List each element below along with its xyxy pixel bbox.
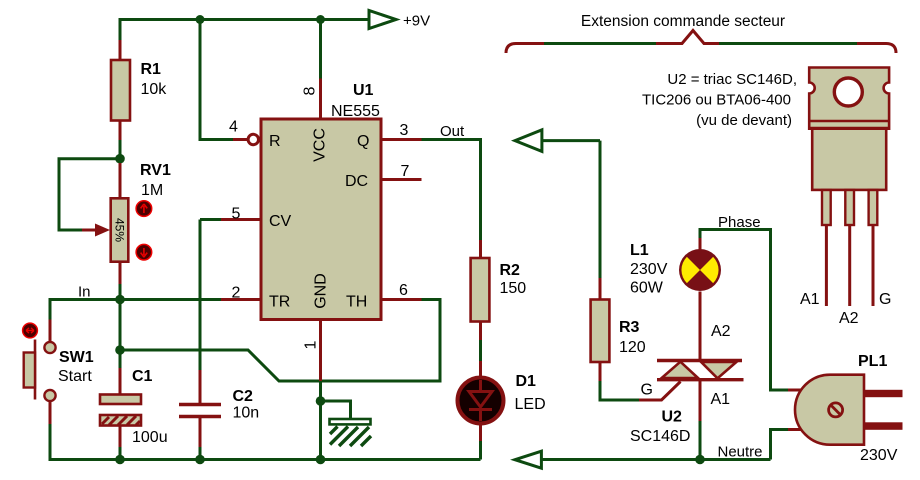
svg-text:A2: A2 (839, 310, 859, 327)
pin 2 stub (221, 285, 261, 302)
svg-text:RV1: RV1 (140, 162, 171, 179)
svg-text:45%: 45% (113, 218, 127, 242)
svg-text:230V: 230V (630, 261, 668, 278)
ground (321, 401, 372, 446)
svg-text:5: 5 (232, 206, 241, 223)
svg-text:A2: A2 (711, 323, 731, 340)
svg-text:L1: L1 (630, 242, 649, 259)
op-amp U1 NE555 (261, 82, 381, 320)
node junction rail-VCC (316, 15, 325, 24)
potentiometer RV1 (82, 162, 171, 284)
svg-text:U1: U1 (353, 82, 374, 99)
wire top +9V rail (120, 20, 369, 61)
wire pin3 Out (422, 140, 481, 241)
wire R2 to D1 (479, 340, 482, 361)
diode D1 LED (458, 361, 546, 441)
node junction rail-R4wire (196, 15, 205, 24)
svg-text:Extension commande secteur: Extension commande secteur (581, 13, 785, 30)
arrow extension neutre (515, 451, 771, 468)
wire R1 to node (119, 140, 122, 159)
TO-220 package drawing (800, 68, 891, 328)
wire RV1 wiper loop (59, 159, 118, 230)
svg-text:U2 = triac SC146D,: U2 = triac SC146D, (667, 71, 797, 88)
wire neutre to plug (771, 430, 789, 460)
node rail gnd (316, 455, 326, 465)
wire C1 node to TH diagonal (120, 300, 440, 382)
plug pin stubs (788, 390, 802, 430)
power +9V arrow (369, 11, 396, 29)
note text U2 triac (642, 71, 797, 129)
resistor R1 (111, 40, 167, 140)
svg-text:A1: A1 (711, 391, 731, 408)
SW1 actuate button (23, 323, 38, 338)
node In (115, 295, 125, 305)
svg-text:120: 120 (619, 339, 646, 356)
pin 3 stub (381, 122, 422, 140)
svg-text:Q: Q (357, 133, 369, 150)
svg-text:7: 7 (401, 163, 410, 180)
svg-text:Phase: Phase (718, 214, 761, 231)
wire In to SW1 (50, 300, 120, 320)
svg-text:2: 2 (232, 285, 241, 302)
pin 4 stub and bubble (229, 119, 259, 145)
pin 5 stub (200, 206, 261, 223)
wire In to pin2 (120, 298, 221, 301)
svg-text:In: In (78, 284, 91, 301)
svg-text:NE555: NE555 (331, 103, 380, 120)
svg-text:100u: 100u (132, 429, 168, 446)
pin 7 stub (381, 163, 422, 180)
wire R3 to gate (600, 381, 640, 400)
svg-text:TH: TH (346, 294, 367, 311)
wire A1 to neutre node (699, 421, 702, 460)
svg-text:10k: 10k (141, 81, 168, 98)
svg-text:GND: GND (313, 273, 330, 309)
RV1 down adjust button (136, 244, 152, 260)
wire arrow to R3 (599, 141, 602, 278)
wire In down to C1 (119, 300, 122, 351)
svg-text:150: 150 (500, 280, 527, 297)
svg-text:TIC206 ou BTA06-400: TIC206 ou BTA06-400 (642, 92, 791, 109)
capacitor C2 (179, 220, 259, 460)
svg-text:VCC: VCC (312, 128, 329, 162)
svg-text:230V: 230V (860, 447, 898, 464)
svg-text:+9V: +9V (403, 13, 430, 30)
svg-text:Out: Out (440, 123, 465, 140)
wire rail to pin8 (319, 20, 322, 79)
svg-text:6: 6 (399, 282, 408, 299)
svg-text:SC146D: SC146D (630, 428, 690, 445)
pin 6 stub (381, 282, 422, 300)
svg-text:SW1: SW1 (59, 349, 94, 366)
capacitor C1 (100, 350, 168, 460)
svg-text:8: 8 (302, 86, 319, 95)
node gnd branch (316, 396, 326, 406)
transistor U2 triac (630, 292, 744, 446)
svg-text:CV: CV (269, 213, 292, 230)
node R1-RV1 (115, 154, 125, 164)
wire rail to pin4 (200, 20, 233, 140)
svg-text:G: G (879, 291, 891, 308)
svg-text:C2: C2 (233, 388, 254, 405)
svg-text:60W: 60W (630, 280, 664, 297)
wire D1 to rail (479, 441, 482, 460)
svg-text:(vu de devant): (vu de devant) (696, 112, 792, 129)
svg-text:3: 3 (400, 122, 409, 139)
node rail C1 (115, 455, 125, 465)
svg-text:10n: 10n (233, 405, 260, 422)
svg-text:1M: 1M (141, 182, 163, 199)
arrow extension out (515, 130, 600, 152)
wire RV1 to In node (119, 284, 122, 300)
lamp L1 (630, 238, 721, 297)
svg-text:TR: TR (269, 294, 290, 311)
svg-text:Start: Start (58, 368, 92, 385)
svg-text:PL1: PL1 (858, 353, 887, 370)
svg-text:1: 1 (303, 340, 320, 349)
brace extension (506, 13, 896, 53)
wire SW1 to bottom rail (50, 424, 481, 460)
svg-text:R3: R3 (619, 319, 640, 336)
resistor R3 (591, 278, 646, 381)
node rail C2 (195, 455, 205, 465)
svg-text:C1: C1 (132, 368, 153, 385)
svg-text:A1: A1 (800, 291, 820, 308)
svg-text:U2: U2 (662, 409, 683, 426)
node C1 top (115, 345, 125, 355)
RV1 up adjust button (136, 201, 152, 217)
pin 1 stub (303, 320, 321, 382)
svg-text:4: 4 (229, 119, 238, 136)
connector PL1 (795, 353, 903, 464)
wire gnd vertical (319, 381, 322, 460)
svg-text:D1: D1 (516, 373, 537, 390)
svg-text:R1: R1 (141, 61, 162, 78)
switch SW1 (24, 320, 94, 425)
svg-text:R2: R2 (500, 262, 521, 279)
svg-text:LED: LED (515, 396, 546, 413)
svg-text:G: G (641, 382, 653, 399)
wire Phase (700, 230, 788, 391)
svg-text:R: R (269, 133, 281, 150)
node neutre A1 (695, 455, 705, 465)
svg-text:Neutre: Neutre (718, 444, 763, 461)
svg-text:DC: DC (345, 173, 368, 190)
pin 8 stub (302, 79, 321, 120)
resistor R2 (471, 240, 527, 340)
